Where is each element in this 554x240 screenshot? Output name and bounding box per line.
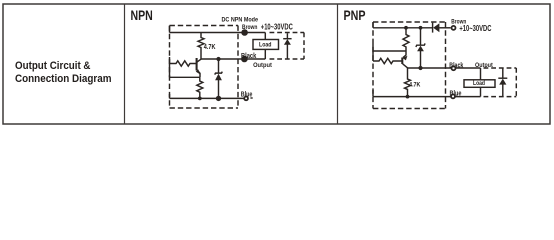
svg-text:Blue: Blue: [450, 89, 462, 98]
svg-text:Black: Black: [449, 63, 463, 70]
svg-text:4.7K: 4.7K: [409, 82, 420, 89]
svg-text:Load: Load: [259, 41, 272, 48]
svg-text:+10~30VDC: +10~30VDC: [459, 24, 491, 33]
svg-text:Black: Black: [241, 51, 257, 60]
svg-text:Brown: Brown: [242, 24, 257, 31]
svg-text:NPN: NPN: [131, 7, 153, 23]
svg-text:Output Circuit &: Output Circuit &: [15, 60, 91, 72]
svg-text:Output: Output: [475, 62, 493, 69]
svg-text:+10~30VDC: +10~30VDC: [261, 23, 293, 32]
svg-text:Connection Diagram: Connection Diagram: [15, 73, 112, 85]
svg-text:PNP: PNP: [344, 7, 366, 23]
svg-text:DC NPN Mode: DC NPN Mode: [222, 16, 259, 23]
svg-text:4.7K: 4.7K: [204, 44, 216, 51]
svg-text:Output: Output: [253, 62, 272, 69]
svg-text:Blue: Blue: [241, 90, 253, 99]
svg-text:Load: Load: [473, 80, 485, 87]
